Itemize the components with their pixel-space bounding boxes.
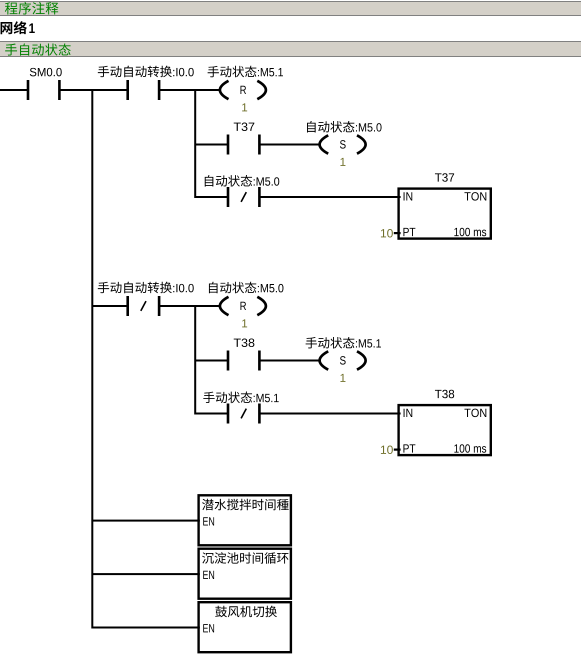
auto S coil operand 1 [340,374,345,382]
wire to NC contact (rung 3) [195,413,228,415]
manual R coil operand 1 [242,103,247,111]
wire to timer T37 [259,196,400,198]
wire after SM0.0 [59,89,127,91]
manual branch vertical wire [194,89,196,198]
S coil :M5.0 [307,121,382,154]
wire to submersible mixer timing subroutine [92,520,200,522]
wire after NC I0.0 contact [159,305,221,307]
timer T37 PT operand 10 [381,229,401,237]
NC contact 手动自动转换:I0.0 [98,282,194,316]
NC contact :M5.1 (rung 3) [203,392,278,424]
auto R coil operand 1 [242,319,247,327]
wire after I0.0 contact [159,89,221,91]
auto branch vertical wire [194,305,196,415]
S coil :M5.1 [306,337,381,370]
contact SM0.0 [27,68,62,100]
NC contact :M5.0 (rung 3) [205,175,280,207]
contact T38 (rung 2) [227,339,261,371]
wire to T37 contact [195,144,228,146]
auto R coil :M5.0 [209,282,284,315]
wire to NC contact (rung 3) [195,196,228,198]
contact T37 (rung 2) [227,123,261,155]
network comment bar [0,41,581,57]
submersible mixer timing subroutine box [199,495,291,545]
program comment title bar [0,1,581,16]
timer T38 PT operand 10 [381,446,401,454]
rung 4 wire from branch [92,305,127,307]
network 1 title [1,21,35,34]
wire to timer T38 [259,413,400,415]
manual S coil operand 1 [340,158,345,166]
rung 1 left power wire [0,89,28,91]
timer T37 TON box [399,173,491,238]
main branch vertical wire [91,89,93,629]
timer T38 TON box [399,390,491,455]
wire to T38 contact [195,360,228,362]
wire to S coil [259,144,320,146]
wire to S coil [259,360,320,362]
manual R coil :M5.1 [208,66,283,99]
sedimentation pool timing subroutine box [199,549,291,599]
blower switchover subroutine box [199,602,291,652]
wire to sedimentation pool timing subroutine [92,573,200,575]
wire to blower switchover subroutine [92,627,200,629]
contact 手动自动转换:I0.0 [98,66,194,100]
